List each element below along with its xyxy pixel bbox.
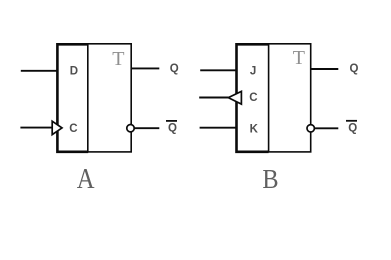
svg-text:Q: Q xyxy=(350,63,359,75)
overbar for Q-bar (B) xyxy=(346,120,357,122)
svg-text:C: C xyxy=(249,92,257,104)
wire D input xyxy=(21,70,57,72)
svg-text:Q: Q xyxy=(348,123,357,135)
flip-flop A outer body xyxy=(57,44,131,152)
svg-text:T: T xyxy=(293,47,305,69)
svg-text:B: B xyxy=(262,163,278,194)
svg-text:T: T xyxy=(112,48,124,70)
wire J input xyxy=(200,69,236,71)
flip-flop A input section thick border xyxy=(57,44,88,152)
inversion bubble A xyxy=(127,125,134,132)
clock edge triangle B xyxy=(228,91,241,104)
svg-text:J: J xyxy=(250,65,256,77)
svg-text:C: C xyxy=(69,123,77,135)
flip-flop B divider xyxy=(268,44,270,152)
wire Q-bar output (B) xyxy=(314,127,338,129)
clock edge triangle A xyxy=(52,121,62,134)
wire K input xyxy=(200,127,236,129)
flip-flop B input section thick border xyxy=(237,44,269,152)
svg-text:D: D xyxy=(70,65,78,77)
overbar for Q-bar (A) xyxy=(166,120,177,122)
wire Q-bar output (A) xyxy=(134,127,159,129)
svg-text:Q: Q xyxy=(168,122,177,134)
inversion bubble B xyxy=(307,125,314,132)
flip-flop A divider xyxy=(87,44,89,152)
flip-flop B outer body xyxy=(237,44,311,152)
svg-text:K: K xyxy=(250,124,259,136)
svg-text:Q: Q xyxy=(170,63,179,75)
wire Q output (B) xyxy=(311,68,338,70)
wire Q output (A) xyxy=(132,67,160,69)
wire C input (B) xyxy=(199,97,228,99)
wire C input (A) xyxy=(20,127,52,129)
svg-text:A: A xyxy=(77,164,95,195)
